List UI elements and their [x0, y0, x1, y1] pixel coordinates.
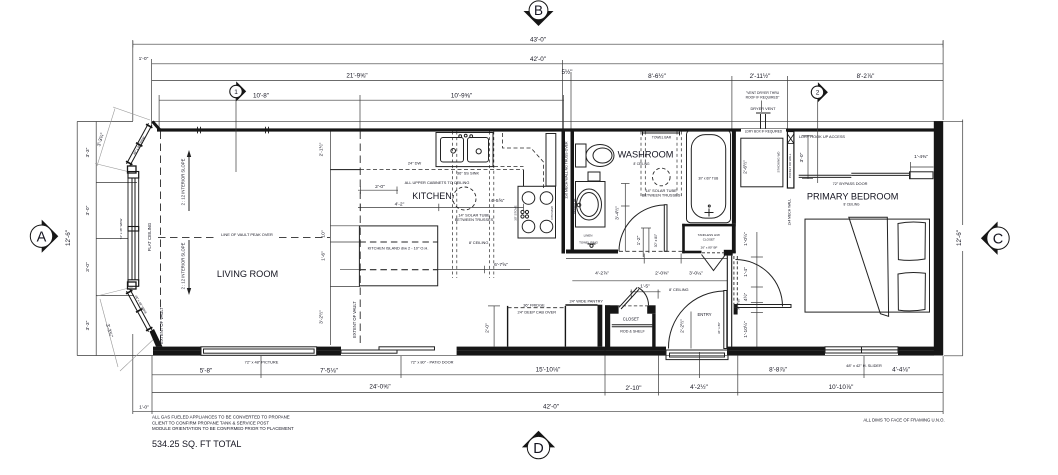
- svg-text:30" x 80": 30" x 80": [654, 233, 658, 247]
- svg-text:D: D: [533, 441, 543, 457]
- svg-text:2x4 MECH WALL: 2x4 MECH WALL: [788, 199, 792, 226]
- svg-text:3'-0": 3'-0": [85, 262, 91, 272]
- svg-text:15'-10⅛": 15'-10⅛": [536, 366, 561, 373]
- svg-text:2'-2½": 2'-2½": [679, 319, 686, 333]
- svg-text:4'-2½": 4'-2½": [690, 383, 708, 391]
- svg-text:2'-11½": 2'-11½": [750, 72, 771, 80]
- svg-text:42'-0": 42'-0": [543, 404, 559, 411]
- svg-text:8' CEILING: 8' CEILING: [669, 287, 689, 292]
- svg-text:1'-0": 1'-0": [139, 56, 149, 62]
- svg-text:LDRY HOOK UP ACCESS: LDRY HOOK UP ACCESS: [799, 134, 845, 139]
- svg-text:1'-5": 1'-5": [640, 284, 650, 290]
- svg-text:10'-8": 10'-8": [253, 93, 269, 100]
- svg-text:BETWEEN TRUSSES: BETWEEN TRUSSES: [642, 192, 681, 197]
- svg-text:8'-8⅞": 8'-8⅞": [769, 366, 787, 373]
- svg-text:8' CEILING: 8' CEILING: [469, 240, 489, 245]
- svg-text:3'-3": 3'-3": [85, 320, 91, 330]
- svg-text:2'-0": 2'-0": [484, 323, 490, 333]
- svg-text:7'-5⅛": 7'-5⅛": [320, 367, 338, 374]
- svg-text:2'-6½": 2'-6½": [742, 160, 749, 174]
- svg-text:CLIENT TO CONFIRM PROPANE TANK: CLIENT TO CONFIRM PROPANE TANK & SERVICE…: [152, 420, 269, 425]
- svg-text:ALL DIMS TO FACE OF FRAMING U.: ALL DIMS TO FACE OF FRAMING U.N.O.: [863, 418, 944, 423]
- svg-text:1'-4⅜": 1'-4⅜": [914, 154, 928, 160]
- svg-text:10'-9⅝": 10'-9⅝": [451, 93, 472, 100]
- svg-text:48" x 48" WDW: 48" x 48" WDW: [132, 135, 146, 155]
- svg-text:EXTENT OF VAULT: EXTENT OF VAULT: [159, 307, 164, 344]
- svg-text:4'-5⅝": 4'-5⅝": [491, 198, 505, 204]
- svg-text:42'-0": 42'-0": [530, 56, 546, 63]
- svg-text:21'-9⅝": 21'-9⅝": [346, 73, 367, 80]
- svg-text:ROD & SHELF: ROD & SHELF: [620, 330, 645, 334]
- svg-text:TOWEL BAR: TOWEL BAR: [652, 136, 672, 140]
- svg-text:KITCHEN: KITCHEN: [412, 191, 452, 201]
- svg-text:30" x 60" TUB: 30" x 60" TUB: [698, 177, 718, 181]
- svg-text:72" x 80" - PATIO DOOR: 72" x 80" - PATIO DOOR: [411, 360, 454, 365]
- svg-text:24" DEEP CAB OVER: 24" DEEP CAB OVER: [518, 310, 557, 315]
- svg-text:MODULE ORIENTATION TO BE CONFI: MODULE ORIENTATION TO BE CONFIRMED PRIOR…: [152, 426, 294, 431]
- svg-text:CLOSET: CLOSET: [703, 237, 715, 241]
- svg-text:3'-0": 3'-0": [799, 152, 805, 162]
- svg-text:3'-4½": 3'-4½": [614, 206, 621, 220]
- svg-text:8' CEILING: 8' CEILING: [633, 162, 650, 166]
- svg-text:8'-6½": 8'-6½": [648, 72, 666, 80]
- svg-text:36" FRIDGE: 36" FRIDGE: [523, 302, 545, 307]
- svg-text:2 : 12 INTERIOR SLOPE: 2 : 12 INTERIOR SLOPE: [181, 242, 186, 289]
- svg-text:LIVING ROOM: LIVING ROOM: [217, 269, 278, 279]
- svg-text:72" x 48" WDW: 72" x 48" WDW: [119, 219, 123, 240]
- svg-text:EXTENT OF VAULT: EXTENT OF VAULT: [352, 301, 357, 338]
- svg-text:2'-0⅜": 2'-0⅜": [655, 271, 669, 277]
- svg-text:5'-8": 5'-8": [200, 367, 213, 374]
- svg-text:POCKET DR WALL: POCKET DR WALL: [788, 153, 792, 178]
- svg-text:3'-2½": 3'-2½": [318, 310, 325, 324]
- svg-text:A: A: [37, 229, 47, 245]
- svg-text:24" WIDE PANTRY: 24" WIDE PANTRY: [569, 299, 603, 304]
- svg-text:TOWEL RING: TOWEL RING: [579, 241, 599, 245]
- svg-text:3'-0": 3'-0": [85, 205, 91, 215]
- svg-text:C: C: [993, 231, 1003, 247]
- svg-text:LINE OF VAULT PEAK OVER: LINE OF VAULT PEAK OVER: [221, 232, 273, 237]
- svg-text:30" STOVE: 30" STOVE: [513, 205, 517, 220]
- svg-text:48" x 42" H. SLIDER: 48" x 42" H. SLIDER: [846, 363, 882, 368]
- svg-text:4'-2⅞": 4'-2⅞": [595, 271, 609, 277]
- svg-text:2: 2: [816, 90, 820, 97]
- svg-text:1'-10½": 1'-10½": [742, 321, 749, 338]
- svg-text:LDRY BOX IF REQUIRED: LDRY BOX IF REQUIRED: [745, 130, 783, 134]
- svg-text:4½": 4½": [742, 292, 749, 301]
- svg-text:43'-0": 43'-0": [530, 37, 546, 44]
- svg-text:2'-1½": 2'-1½": [318, 142, 325, 156]
- svg-text:KITCHEN ISLAND d/w 2 - 10" O.H: KITCHEN ISLAND d/w 2 - 10" O.H.: [368, 246, 429, 251]
- svg-text:10": 10": [321, 230, 327, 237]
- svg-text:2'-10": 2'-10": [625, 385, 641, 392]
- svg-text:24'-0⅝": 24'-0⅝": [369, 383, 390, 390]
- svg-text:1'-0½": 1'-0½": [742, 232, 749, 246]
- svg-text:B: B: [534, 3, 543, 18]
- svg-text:36" SS SINK: 36" SS SINK: [457, 171, 480, 176]
- svg-text:72" x 48" PICTURE: 72" x 48" PICTURE: [245, 360, 279, 365]
- svg-text:STACKING WD: STACKING WD: [777, 151, 781, 173]
- svg-text:1'-4": 1'-4": [743, 267, 749, 277]
- svg-text:1: 1: [234, 89, 238, 96]
- svg-text:72" BYPASS DOOR: 72" BYPASS DOOR: [833, 181, 868, 186]
- svg-text:"VENT DRYER THRU: "VENT DRYER THRU: [746, 91, 780, 95]
- svg-text:ALL GAS FUELED APPLIANCES TO B: ALL GAS FUELED APPLIANCES TO BE CONVERTE…: [152, 415, 290, 420]
- svg-text:10'-10⅞": 10'-10⅞": [829, 384, 854, 391]
- svg-text:3'-3¾": 3'-3¾": [96, 132, 106, 147]
- svg-text:8' CEILING: 8' CEILING: [843, 202, 860, 206]
- svg-text:FLAT CEILING: FLAT CEILING: [147, 222, 152, 251]
- svg-text:4'-2": 4'-2": [395, 202, 405, 208]
- svg-text:LINEN: LINEN: [584, 234, 593, 238]
- svg-text:BETWEEN TRUSSES: BETWEEN TRUSSES: [455, 217, 494, 222]
- svg-text:WASHROOM: WASHROOM: [618, 150, 674, 160]
- svg-text:OTR M/W: OTR M/W: [550, 206, 554, 219]
- svg-text:ALL UPPER CABINETS TO CEILING: ALL UPPER CABINETS TO CEILING: [405, 180, 470, 185]
- svg-text:30" x 80": 30" x 80": [737, 298, 741, 310]
- svg-text:12'-6": 12'-6": [65, 230, 72, 246]
- svg-text:ROOF IF REQUIRED": ROOF IF REQUIRED": [746, 96, 781, 100]
- svg-text:1'-6": 1'-6": [321, 251, 327, 261]
- svg-text:3'-3¾": 3'-3¾": [104, 323, 114, 338]
- svg-text:3'-3": 3'-3": [85, 147, 91, 157]
- svg-text:DRYER VENT: DRYER VENT: [750, 106, 776, 111]
- svg-text:PRIMARY BEDROOM: PRIMARY BEDROOM: [807, 192, 899, 202]
- svg-text:36" x 80": 36" x 80": [717, 322, 721, 334]
- svg-text:12'-6": 12'-6": [956, 230, 963, 246]
- svg-text:CLOSET: CLOSET: [623, 317, 640, 322]
- svg-text:5½": 5½": [562, 68, 573, 76]
- svg-text:2 : 12 INTERIOR SLOPE: 2 : 12 INTERIOR SLOPE: [181, 158, 186, 205]
- svg-text:ENTRY: ENTRY: [697, 312, 711, 317]
- svg-text:24" DW: 24" DW: [408, 161, 422, 166]
- svg-text:8'-2⅞": 8'-2⅞": [857, 73, 875, 80]
- svg-text:4'-4⅛": 4'-4⅛": [892, 366, 910, 373]
- svg-text:1'-2": 1'-2": [636, 235, 642, 245]
- svg-text:26" x 80" BF: 26" x 80" BF: [701, 246, 718, 250]
- svg-text:1'-0": 1'-0": [139, 405, 149, 411]
- svg-text:2x6 MECH WALL NO TRUSS OVER: 2x6 MECH WALL NO TRUSS OVER: [565, 141, 569, 199]
- svg-text:MIRROR: MIRROR: [573, 198, 577, 214]
- svg-text:3'-0¼": 3'-0¼": [689, 271, 703, 277]
- svg-text:6'-7⅝": 6'-7⅝": [494, 262, 508, 268]
- svg-text:2'-0": 2'-0": [375, 184, 385, 190]
- svg-text:534.25 SQ. FT TOTAL: 534.25 SQ. FT TOTAL: [152, 439, 241, 449]
